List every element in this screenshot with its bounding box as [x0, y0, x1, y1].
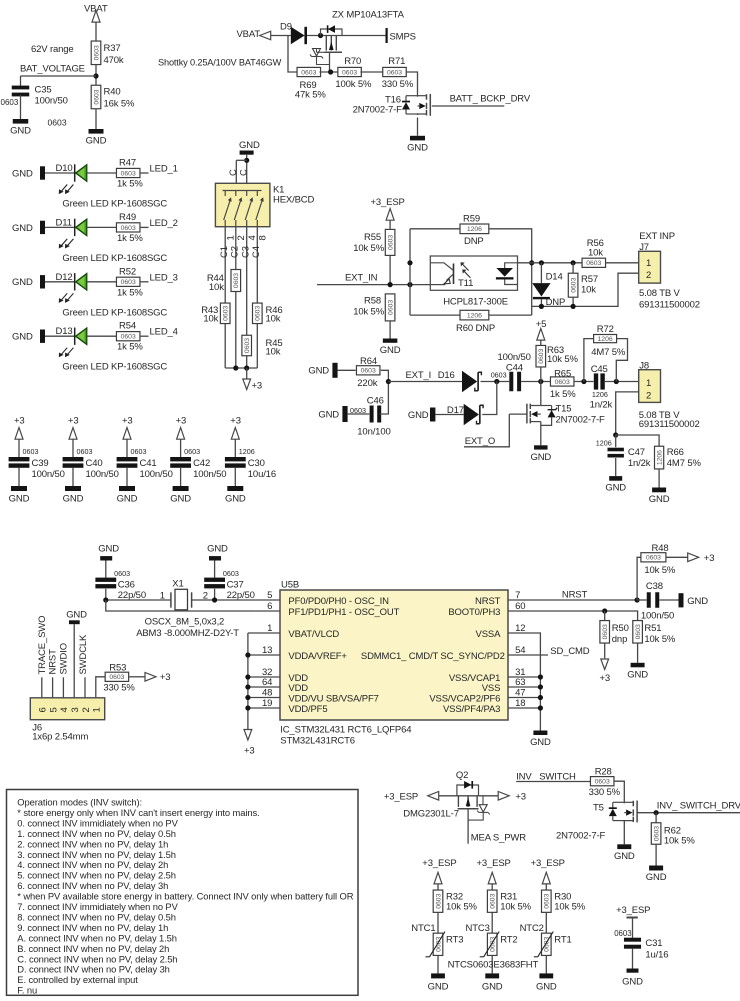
svg-text:100n/50: 100n/50 [32, 469, 65, 480]
svg-text:2N7002-7-F: 2N7002-7-F [353, 105, 403, 116]
svg-text:R72: R72 [597, 324, 614, 335]
svg-text:GND: GND [614, 851, 635, 862]
svg-text:0603: 0603 [595, 779, 610, 786]
svg-text:T15: T15 [556, 404, 572, 415]
svg-text:Q2: Q2 [456, 770, 468, 781]
svg-text:330 5%: 330 5% [382, 79, 414, 90]
svg-text:GND: GND [308, 366, 329, 377]
svg-text:0603: 0603 [544, 937, 551, 952]
svg-text:10k 5%: 10k 5% [664, 836, 695, 847]
svg-text:100n/50: 100n/50 [86, 469, 119, 480]
svg-text:0603: 0603 [301, 69, 316, 76]
svg-text:1n/2k: 1n/2k [590, 399, 613, 410]
svg-text:1n/2k: 1n/2k [628, 458, 651, 469]
svg-text:0603: 0603 [233, 273, 240, 288]
svg-text:0603: 0603 [490, 937, 497, 952]
svg-text:C41: C41 [140, 458, 157, 469]
svg-text:GND: GND [530, 737, 551, 748]
svg-text:0603: 0603 [255, 306, 262, 321]
svg-text:C3: C3 [241, 246, 252, 258]
svg-text:10k: 10k [588, 248, 603, 259]
svg-text:C42: C42 [193, 458, 210, 469]
svg-text:C47: C47 [628, 447, 645, 458]
svg-text:D13: D13 [56, 326, 73, 337]
svg-text:9. connect INV when no PV, del: 9. connect INV when no PV, delay 1h [17, 922, 168, 933]
svg-text:GND: GND [408, 410, 429, 421]
svg-text:R52: R52 [119, 266, 136, 277]
svg-text:R30: R30 [554, 891, 571, 902]
svg-text:1k 5%: 1k 5% [117, 342, 143, 353]
svg-text:EXT_O: EXT_O [465, 436, 495, 447]
svg-text:0603: 0603 [350, 406, 366, 415]
svg-text:0603: 0603 [121, 279, 136, 286]
svg-text:+3: +3 [244, 746, 255, 757]
svg-text:GND: GND [627, 669, 648, 680]
svg-text:470k: 470k [104, 55, 124, 66]
svg-text:C: C [228, 169, 239, 176]
svg-text:GND: GND [536, 981, 557, 992]
svg-text:X1: X1 [172, 579, 183, 590]
svg-text:0603: 0603 [435, 937, 442, 952]
svg-text:0603: 0603 [23, 447, 39, 456]
svg-text:PF1/PD1/PH1 - OSC_OUT: PF1/PD1/PH1 - OSC_OUT [288, 607, 399, 618]
svg-text:+3: +3 [68, 416, 79, 427]
svg-text:100n/50: 100n/50 [641, 610, 674, 621]
svg-text:+3: +3 [160, 672, 171, 683]
svg-text:BATT_ BCKP_DRV: BATT_ BCKP_DRV [450, 94, 531, 105]
svg-text:Green LED KP-1608SGC: Green LED KP-1608SGC [62, 307, 167, 318]
svg-text:C2: C2 [230, 246, 241, 258]
svg-text:VBAT/VLCD: VBAT/VLCD [288, 629, 339, 640]
svg-text:1: 1 [92, 707, 103, 712]
svg-text:+3: +3 [122, 416, 133, 427]
svg-text:R28: R28 [595, 767, 612, 778]
svg-text:0603: 0603 [490, 893, 497, 908]
svg-text:SMPS: SMPS [390, 32, 416, 43]
svg-text:GND: GND [86, 136, 107, 147]
svg-text:62V range: 62V range [31, 44, 74, 55]
svg-text:691311500002: 691311500002 [639, 419, 700, 430]
svg-text:R55: R55 [364, 232, 381, 243]
svg-text:C37: C37 [227, 580, 244, 591]
svg-text:10k: 10k [266, 314, 281, 325]
svg-text:SDMMC1_ CMD/T SC_SYNC/PD2: SDMMC1_ CMD/T SC_SYNC/PD2 [361, 651, 505, 662]
svg-text:B. connect INV when no PV, del: B. connect INV when no PV, delay 2h [17, 943, 169, 954]
svg-text:GND: GND [318, 409, 339, 420]
svg-text:1k 5%: 1k 5% [117, 287, 143, 298]
svg-text:R58: R58 [364, 296, 381, 307]
svg-text:VSSA: VSSA [476, 629, 502, 640]
svg-text:A. connect INV when no PV, del: A. connect INV when no PV, delay 1.5h [17, 932, 177, 943]
svg-text:GND: GND [482, 981, 503, 992]
svg-text:0603: 0603 [361, 368, 376, 375]
svg-text:10k 5%: 10k 5% [554, 902, 585, 913]
svg-text:BAT_VOLTAGE: BAT_VOLTAGE [20, 64, 85, 75]
svg-text:GND: GND [12, 332, 33, 343]
svg-text:U5B: U5B [281, 580, 299, 591]
svg-text:INV_ SWITCH_DRV: INV_ SWITCH_DRV [657, 800, 740, 811]
svg-text:HCPL817-300E: HCPL817-300E [443, 297, 508, 308]
svg-text:C44: C44 [506, 362, 523, 373]
svg-text:1k 5%: 1k 5% [550, 389, 576, 400]
svg-text:0603: 0603 [121, 170, 136, 177]
svg-text:8. connect INV when no PV, del: 8. connect INV when no PV, delay 0.5h [17, 911, 176, 922]
svg-text:SWDIO: SWDIO [58, 643, 69, 674]
svg-text:2: 2 [81, 707, 92, 712]
svg-text:LED_1: LED_1 [150, 164, 178, 175]
svg-text:5. connect INV when no PV, del: 5. connect INV when no PV, delay 2.5h [17, 870, 176, 881]
svg-text:1206: 1206 [467, 226, 482, 233]
svg-text:GND: GND [239, 140, 260, 151]
svg-text:RT3: RT3 [446, 934, 463, 945]
svg-text:GND: GND [66, 610, 87, 621]
svg-text:C31: C31 [645, 938, 662, 949]
svg-text:10k: 10k [209, 282, 224, 293]
svg-text:+3: +3 [230, 416, 241, 427]
svg-text:10u/16: 10u/16 [248, 469, 276, 480]
svg-text:0603: 0603 [435, 893, 442, 908]
svg-text:EXT INP: EXT INP [639, 231, 675, 242]
svg-text:RT2: RT2 [500, 934, 517, 945]
svg-text:6: 6 [38, 707, 49, 712]
svg-text:1206: 1206 [239, 447, 255, 456]
svg-text:GND: GND [646, 872, 667, 883]
svg-text:EXT_I: EXT_I [406, 370, 432, 381]
svg-text:4M7 5%: 4M7 5% [667, 458, 702, 469]
svg-text:GND: GND [380, 345, 401, 356]
svg-text:1k 5%: 1k 5% [117, 233, 143, 244]
svg-text:1: 1 [646, 378, 651, 389]
svg-text:NRST: NRST [475, 596, 501, 607]
svg-text:GND: GND [170, 494, 191, 505]
svg-text:SD_CMD: SD_CMD [550, 646, 590, 657]
svg-text:E. controlled by external inpu: E. controlled by external input [17, 974, 138, 985]
svg-text:1x6p 2.54mm: 1x6p 2.54mm [32, 732, 88, 743]
svg-text:10k 5%: 10k 5% [644, 634, 675, 645]
svg-text:R71: R71 [388, 56, 405, 67]
svg-text:C: C [239, 169, 250, 176]
svg-text:3: 3 [70, 707, 81, 712]
svg-text:0603: 0603 [571, 277, 578, 292]
svg-text:VDDA/VREF+: VDDA/VREF+ [288, 651, 347, 662]
svg-text:+3: +3 [14, 416, 25, 427]
svg-text:ZX MP10A13FTA: ZX MP10A13FTA [332, 10, 405, 21]
svg-text:C45: C45 [591, 364, 608, 375]
svg-text:DNP: DNP [464, 236, 484, 247]
svg-text:0603: 0603 [387, 69, 402, 76]
svg-text:R66: R66 [667, 447, 684, 458]
svg-text:GND: GND [407, 142, 428, 153]
svg-text:2N7002-7-F: 2N7002-7-F [556, 831, 606, 842]
svg-text:220k: 220k [357, 378, 377, 389]
svg-text:C36: C36 [118, 580, 135, 591]
svg-text:1: 1 [225, 235, 236, 240]
svg-text:T11: T11 [458, 278, 473, 289]
svg-text:330 5%: 330 5% [103, 682, 135, 693]
svg-text:2: 2 [646, 270, 651, 281]
svg-text:5.08 TB V: 5.08 TB V [639, 288, 681, 299]
svg-text:0. connect INV immidiately whe: 0. connect INV immidiately when no PV [17, 817, 178, 828]
svg-text:10k: 10k [581, 285, 596, 296]
svg-text:F. nu: F. nu [17, 985, 37, 996]
svg-text:GND: GND [63, 494, 84, 505]
svg-text:D11: D11 [56, 217, 72, 228]
svg-text:10k: 10k [203, 314, 218, 325]
svg-text:0603: 0603 [388, 235, 395, 250]
svg-text:0603: 0603 [602, 624, 609, 639]
svg-text:R51: R51 [644, 623, 661, 634]
svg-text:691311500002: 691311500002 [639, 299, 700, 310]
svg-text:10k 5%: 10k 5% [446, 902, 477, 913]
svg-text:VDD/PF5: VDD/PF5 [288, 704, 327, 715]
svg-text:GND: GND [428, 981, 449, 992]
svg-text:Shottky 0.25A/100V BAT46GW: Shottky 0.25A/100V BAT46GW [158, 58, 282, 68]
svg-text:R31: R31 [500, 891, 517, 902]
svg-text:Green LED KP-1608SGC: Green LED KP-1608SGC [62, 199, 167, 210]
svg-text:R54: R54 [119, 321, 136, 332]
svg-text:C4: C4 [251, 246, 262, 258]
svg-text:NTC2: NTC2 [520, 923, 544, 934]
svg-text:0603: 0603 [223, 569, 239, 578]
svg-text:GND: GND [530, 452, 551, 463]
svg-text:0603: 0603 [388, 300, 395, 315]
svg-text:C1: C1 [219, 246, 230, 258]
svg-text:GND: GND [12, 277, 33, 288]
svg-text:0603: 0603 [538, 348, 545, 363]
svg-text:Green LED KP-1608SGC: Green LED KP-1608SGC [62, 362, 167, 373]
svg-text:MEA S_PWR: MEA S_PWR [471, 832, 526, 843]
svg-text:OSCX_8M_5,0x3,2: OSCX_8M_5,0x3,2 [145, 617, 225, 628]
svg-text:0603: 0603 [223, 306, 230, 321]
svg-text:10k 5%: 10k 5% [353, 306, 384, 317]
svg-text:LED_3: LED_3 [150, 272, 178, 283]
svg-text:GND: GND [622, 977, 643, 988]
svg-text:R60 DNP: R60 DNP [456, 323, 495, 334]
svg-text:2: 2 [236, 235, 247, 240]
svg-text:C39: C39 [32, 458, 49, 469]
svg-text:GND: GND [98, 544, 119, 555]
svg-text:R47: R47 [119, 158, 136, 169]
svg-text:100n/50: 100n/50 [35, 96, 68, 107]
svg-text:0603: 0603 [114, 569, 130, 578]
svg-text:0603: 0603 [184, 447, 200, 456]
svg-text:GND: GND [117, 494, 138, 505]
svg-text:+3: +3 [600, 673, 611, 684]
svg-text:0603: 0603 [109, 674, 124, 681]
svg-text:NTC3: NTC3 [466, 923, 490, 934]
svg-text:VSS/PF4/PA3: VSS/PF4/PA3 [443, 704, 500, 715]
svg-text:1206: 1206 [596, 438, 612, 447]
svg-text:1206: 1206 [467, 313, 482, 320]
svg-text:GND: GND [10, 126, 31, 137]
svg-text:100k 5%: 100k 5% [335, 79, 372, 90]
svg-text:* when PV available store ener: * when PV available store energy in batt… [17, 891, 353, 902]
svg-text:+3_ESP: +3_ESP [422, 858, 456, 869]
svg-text:R70: R70 [344, 56, 361, 67]
svg-text:VDD: VDD [288, 683, 308, 694]
svg-text:C30: C30 [248, 458, 265, 469]
svg-text:D17: D17 [447, 405, 464, 416]
svg-text:0603: 0603 [1, 98, 19, 107]
svg-text:D14: D14 [546, 272, 563, 283]
svg-text:3. connect INV when no PV, del: 3. connect INV when no PV, delay 1.5h [17, 849, 176, 860]
svg-text:0603: 0603 [491, 370, 507, 379]
svg-text:GND: GND [12, 168, 33, 179]
svg-text:EXT_IN: EXT_IN [345, 273, 378, 284]
svg-text:0603: 0603 [544, 893, 551, 908]
svg-text:GND: GND [605, 483, 626, 494]
svg-text:0603: 0603 [586, 260, 601, 267]
svg-text:GND: GND [207, 544, 228, 555]
svg-text:0603: 0603 [244, 338, 251, 353]
svg-text:16k 5%: 16k 5% [104, 99, 135, 110]
svg-text:2N7002-7-F: 2N7002-7-F [556, 414, 606, 425]
svg-text:IC_STM32L431 RCT6_LQFP64: IC_STM32L431 RCT6_LQFP64 [280, 725, 411, 736]
svg-text:330 5%: 330 5% [589, 787, 621, 798]
svg-text:VSS: VSS [482, 683, 501, 694]
svg-text:NRST: NRST [48, 649, 59, 675]
svg-text:T5: T5 [593, 803, 604, 814]
svg-text:+3: +3 [704, 553, 715, 564]
svg-text:+3_ESP: +3_ESP [616, 905, 650, 916]
svg-text:R48: R48 [652, 543, 669, 554]
svg-text:PF0/PD0/PH0 - OSC_IN: PF0/PD0/PH0 - OSC_IN [288, 596, 389, 607]
svg-text:HEX/BCD: HEX/BCD [273, 195, 314, 206]
svg-text:C35: C35 [35, 85, 52, 96]
svg-text:GND: GND [649, 494, 670, 505]
svg-text:10k 5%: 10k 5% [500, 902, 531, 913]
svg-text:R59: R59 [463, 214, 480, 225]
svg-text:1206: 1206 [598, 336, 613, 343]
svg-text:+3_ESP: +3_ESP [384, 791, 418, 802]
svg-text:RT1: RT1 [554, 934, 571, 945]
svg-text:R53: R53 [109, 662, 126, 673]
svg-text:R65: R65 [554, 368, 571, 379]
svg-text:0603: 0603 [555, 379, 570, 386]
svg-text:+3_ESP: +3_ESP [371, 197, 405, 208]
svg-text:C40: C40 [86, 458, 103, 469]
svg-text:0603: 0603 [614, 929, 631, 938]
svg-text:VSS/VCAP2/PF6: VSS/VCAP2/PF6 [429, 693, 500, 704]
svg-text:R40: R40 [104, 87, 121, 98]
svg-text:0603: 0603 [93, 89, 100, 104]
svg-text:Operation modes (INV switch):: Operation modes (INV switch): [17, 797, 142, 808]
svg-text:Green LED KP-1608SGC: Green LED KP-1608SGC [62, 253, 167, 264]
svg-text:0603: 0603 [121, 225, 136, 232]
svg-text:5: 5 [48, 707, 59, 712]
svg-text:6. connect INV when no PV, del: 6. connect INV when no PV, delay 3h [17, 880, 168, 891]
svg-text:0603: 0603 [131, 447, 147, 456]
svg-text:1206: 1206 [592, 390, 608, 399]
svg-text:GND: GND [687, 596, 708, 607]
svg-text:0603: 0603 [121, 334, 136, 341]
svg-text:+3: +3 [252, 381, 263, 392]
svg-text:D. connect INV when no PV, del: D. connect INV when no PV, delay 3h [17, 964, 170, 975]
svg-text:8: 8 [258, 235, 269, 240]
svg-text:0603: 0603 [635, 624, 642, 639]
svg-text:10k 5%: 10k 5% [547, 354, 578, 365]
svg-text:GND: GND [12, 223, 33, 234]
svg-text:C. connect INV when no PV, del: C. connect INV when no PV, delay 2.5h [17, 953, 177, 964]
svg-text:VBAT: VBAT [237, 29, 261, 40]
svg-text:GND: GND [225, 494, 246, 505]
svg-text:+3: +3 [515, 792, 526, 803]
svg-text:D12: D12 [56, 272, 73, 283]
svg-text:C46: C46 [367, 395, 384, 406]
svg-text:2. connect INV when no PV, del: 2. connect INV when no PV, delay 1h [17, 838, 168, 849]
svg-text:+3: +3 [176, 416, 187, 427]
svg-text:* store energy only when INV c: * store energy only when INV can't inser… [17, 807, 259, 818]
svg-text:0603: 0603 [342, 69, 357, 76]
svg-text:0603: 0603 [654, 826, 661, 841]
svg-text:R49: R49 [119, 212, 136, 223]
svg-text:0603: 0603 [93, 45, 100, 60]
svg-text:D10: D10 [56, 163, 73, 174]
svg-text:1. connect INV when no PV, del: 1. connect INV when no PV, delay 0.5h [17, 828, 176, 839]
svg-text:4: 4 [59, 707, 70, 712]
svg-text:D9: D9 [280, 21, 292, 32]
svg-text:SWDCLK: SWDCLK [78, 634, 89, 675]
svg-text:1: 1 [160, 591, 165, 602]
svg-text:TRACE_SWO: TRACE_SWO [37, 616, 48, 675]
svg-text:STM32L431RCT6: STM32L431RCT6 [280, 736, 355, 747]
svg-text:DMG2301L-7: DMG2301L-7 [403, 809, 459, 820]
svg-text:0603: 0603 [48, 118, 67, 128]
svg-text:2: 2 [646, 390, 651, 401]
svg-text:1u/16: 1u/16 [645, 950, 668, 961]
svg-text:NRST: NRST [562, 590, 588, 601]
svg-text:1206: 1206 [657, 450, 664, 465]
svg-text:NTCS0603E3683FHT: NTCS0603E3683FHT [448, 959, 539, 970]
svg-text:R64: R64 [360, 356, 377, 367]
svg-text:R50: R50 [612, 623, 629, 634]
svg-text:4: 4 [247, 235, 258, 240]
svg-text:100n/50: 100n/50 [193, 469, 226, 480]
svg-text:47k 5%: 47k 5% [295, 90, 326, 101]
svg-text:LED_2: LED_2 [150, 218, 178, 229]
svg-text:0603: 0603 [77, 447, 93, 456]
svg-text:D16: D16 [438, 370, 455, 381]
svg-text:R37: R37 [104, 43, 121, 54]
svg-text:4M7 5%: 4M7 5% [591, 347, 626, 358]
svg-text:2: 2 [203, 591, 208, 602]
svg-text:VDD/VU SB/VSA/PF7: VDD/VU SB/VSA/PF7 [288, 693, 378, 704]
svg-text:NTC1: NTC1 [411, 923, 435, 934]
svg-text:100n/50: 100n/50 [140, 469, 173, 480]
svg-text:0603: 0603 [646, 555, 661, 562]
svg-text:R57: R57 [581, 274, 598, 285]
svg-text:7. connect INV immidiately whe: 7. connect INV immidiately when no PV [17, 901, 178, 912]
svg-text:10k 5%: 10k 5% [644, 565, 675, 576]
svg-text:R32: R32 [446, 891, 463, 902]
svg-text:GND: GND [9, 494, 30, 505]
svg-text:+3_ESP: +3_ESP [531, 858, 565, 869]
svg-text:1k 5%: 1k 5% [117, 179, 143, 190]
svg-text:1: 1 [646, 258, 651, 269]
svg-text:ABM3 -8.000MHZ-D2Y-T: ABM3 -8.000MHZ-D2Y-T [136, 628, 239, 639]
svg-text:C38: C38 [646, 581, 663, 592]
svg-text:LED_4: LED_4 [150, 327, 178, 338]
svg-text:dnp: dnp [612, 634, 627, 645]
svg-text:10k 5%: 10k 5% [353, 243, 384, 254]
svg-text:BOOT0/PH3: BOOT0/PH3 [448, 607, 500, 618]
svg-text:10n/100: 10n/100 [357, 427, 390, 438]
svg-text:+3_ESP: +3_ESP [477, 858, 511, 869]
svg-text:10k: 10k [266, 347, 281, 358]
svg-text:4. connect INV when no PV, del: 4. connect INV when no PV, delay 2h [17, 859, 168, 870]
